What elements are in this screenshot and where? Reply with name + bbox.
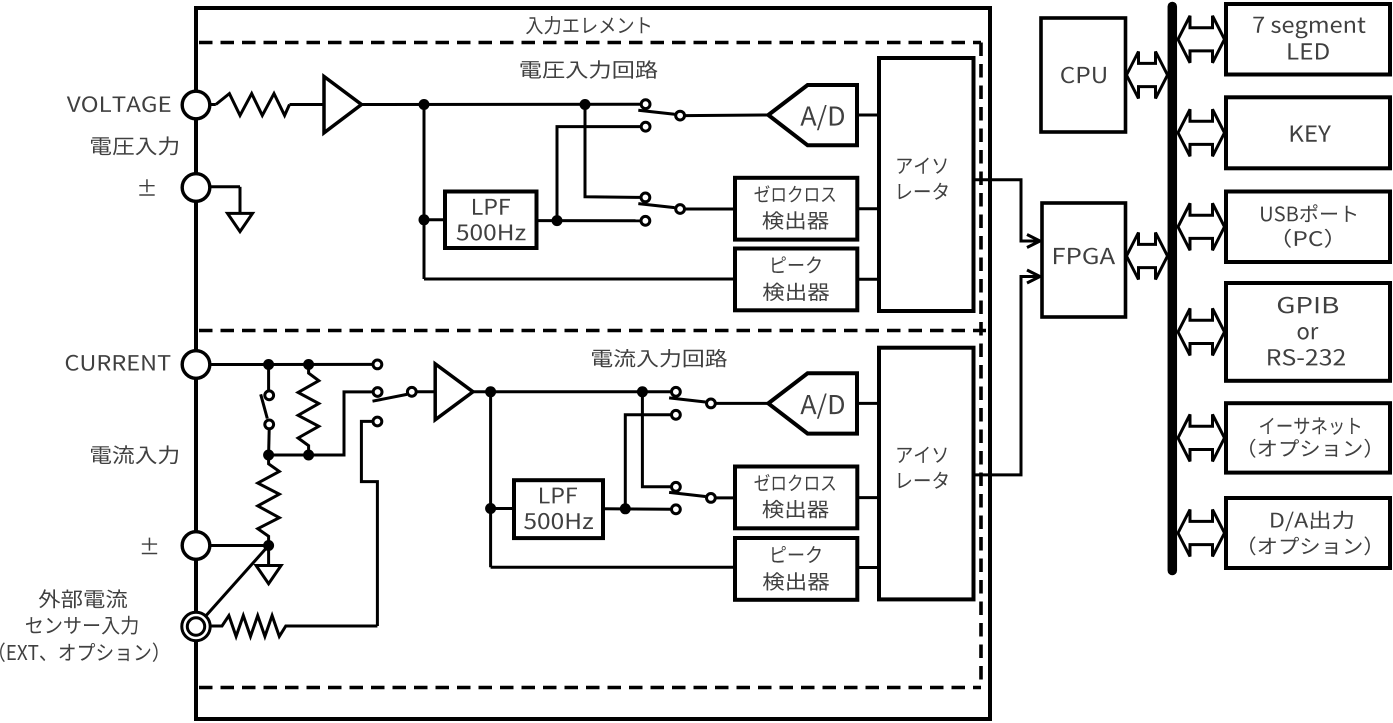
peripheral box: KEY (1226, 97, 1390, 168)
op-amp U2 (current amplifier) (435, 364, 473, 420)
wire: R1 to voltage amplifier (290, 103, 325, 106)
label: 電流入力回路 (current input circuit) (592, 349, 727, 367)
wire: U1 output to peak detector (voltage) (424, 278, 735, 281)
label: アイソ (voltage) (897, 158, 946, 174)
dashed boundary: current input circuit bottom edge (199, 686, 981, 690)
isolator (voltage) アイソレータ (879, 58, 974, 311)
node: voltage LPF output junction (552, 215, 563, 226)
bus: system bus bar (1168, 7, 1178, 571)
switch S3 (shunt range select) (261, 391, 274, 429)
wire: direct path down to switch S6 throw 1 (642, 392, 671, 487)
wire: zero-cross to isolator (voltage) (857, 207, 879, 210)
label: 検出器 (voltage zero-cross) (763, 211, 829, 229)
wire: U2 output to switch S5 throw 1 (473, 390, 672, 393)
bus arrow: bus to Ethernet (1178, 414, 1225, 461)
value label: 500Hz (current) (524, 513, 593, 529)
label: RS-232 (1268, 349, 1345, 366)
wire: S5 common to A/D (current) (715, 402, 768, 405)
wire: EXT sensor path to selector throw 3 (361, 421, 377, 626)
wire: S2 common to zero-cross detector (voltage) (684, 208, 735, 211)
label: CURRENT (66, 355, 171, 371)
node: shunt switch bottom junction (263, 450, 274, 461)
A/D converter (voltage) (768, 85, 857, 145)
wire: ground drop (voltage) (239, 187, 242, 214)
node: voltage direct-path junction (580, 99, 591, 110)
value label: 500Hz (voltage) (457, 224, 526, 240)
peripheral box: 7 segment LED (1226, 4, 1390, 75)
switch blade: EXT sensor select (206, 546, 268, 616)
bus arrow: bus to GPIB/RS-232 (1178, 308, 1225, 355)
label: KEY (1291, 126, 1331, 142)
zero-cross detector box (voltage) (735, 178, 857, 240)
terminal: CURRENT + input (182, 351, 210, 379)
label: ピーク (voltage) (772, 256, 821, 273)
peak detector box (current) (735, 538, 857, 600)
wire: S4 common to current amplifier (416, 390, 435, 393)
CPU block (1041, 18, 1126, 132)
dashed boundary: voltage input circuit top edge (199, 41, 981, 45)
node: shunt resistor bottom junction (303, 450, 314, 461)
wire: current LPF output (603, 507, 672, 511)
op-amp U1 (voltage amplifier) (324, 77, 362, 133)
bus arrow: bus to D/A output (1178, 510, 1225, 557)
value label: LPF (voltage) (473, 199, 510, 215)
label: 電圧入力 (voltage input) (91, 136, 178, 155)
terminal: VOLTAGE + input (182, 91, 210, 119)
wire: U2 output to peak detector (current) (491, 566, 735, 569)
label: A/D (current) (800, 394, 844, 419)
label: レータ (voltage) (899, 183, 948, 200)
resistor R4 (EXT sensor input series) (211, 616, 378, 637)
label: FPGA (1054, 248, 1115, 265)
resistor R3 (current shunt) (258, 455, 280, 546)
wire: VOLTAGE terminal to resistor R1 (210, 103, 216, 106)
wire: peak detector to isolator (voltage) (857, 278, 879, 281)
switch S4 (current source selector) (373, 360, 417, 426)
bus arrow: CPU to bus (1127, 52, 1168, 99)
label: or (1298, 327, 1319, 340)
wire: tap to current LPF input (491, 507, 514, 510)
label: 電流入力 (current input) (91, 445, 178, 464)
label: VOLTAGE (67, 96, 171, 112)
label: レータ (current) (899, 472, 948, 489)
wire: shunt bottom connector to selector throw 2 (269, 392, 374, 455)
low-pass filter LPF 500Hz (voltage) (445, 192, 537, 249)
switch S1 (voltage A/D input select) (638, 100, 684, 131)
node: shunt switch top junction (263, 359, 274, 370)
wire: peak detector to isolator (current) (857, 566, 879, 569)
wire: U1 output to switch S1 throw 1 (362, 103, 642, 106)
wire: voltage ± terminal to ground (210, 185, 240, 188)
label: USBポート (1261, 204, 1356, 222)
FPGA block (1042, 203, 1126, 317)
label: イーサネット (1260, 417, 1360, 435)
label: 電圧入力回路 (voltage input circuit) (521, 60, 658, 78)
wire: junction down to shunt range switch (267, 365, 270, 391)
label: 外部電流 (external current) (39, 589, 127, 608)
label: LED (1288, 43, 1328, 59)
label: GPIB (1278, 297, 1338, 314)
label: ゼロクロス (voltage) (755, 185, 836, 202)
node: U1 output junction (419, 99, 430, 110)
label: 検出器 (current zero-cross) (763, 500, 829, 518)
wire: S1 common to A/D (voltage) (684, 114, 768, 118)
ground (voltage input) (228, 213, 253, 231)
wire: S6 common to zero-cross detector (current) (715, 496, 735, 499)
label: （オプション） d/a (1250, 536, 1370, 555)
node: shunt resistor top junction (303, 359, 314, 370)
wire: direct path down to switch S2 throw 1 (585, 105, 641, 198)
label: A/D (voltage) (800, 105, 844, 130)
enclosure: input element block (入力エレメント) (196, 8, 990, 719)
resistor R2 (current shunt range) (298, 365, 319, 456)
label: ゼロクロス (current) (755, 474, 836, 491)
wire: tap to voltage LPF input (424, 218, 445, 221)
zero-cross detector box (current) (735, 467, 857, 529)
terminal: current ± (low) (182, 532, 210, 560)
label: 7 segment (1253, 17, 1365, 39)
dashed boundary: voltage/current section divider (199, 329, 986, 333)
low-pass filter LPF 500Hz (current) (514, 480, 603, 538)
node: current LPF input tap (485, 503, 496, 514)
label: D/A出力 (1271, 511, 1353, 531)
resistor R1 (voltage input series) (216, 94, 290, 116)
peripheral box: Ethernet (option) (1226, 403, 1390, 472)
label: （オプション） ethernet (1250, 439, 1370, 458)
node: current direct-path junction (637, 386, 648, 397)
terminal: external current sensor input (EXT) (182, 612, 210, 640)
A/D converter (current) (768, 373, 857, 433)
isolator (current) アイソレータ (879, 348, 974, 600)
label: CPU (1061, 67, 1106, 84)
label: ± (voltage) (139, 179, 154, 196)
peripheral box: USB port (PC) (1226, 192, 1390, 263)
switch S6 (current zero-cross input select) (669, 482, 715, 513)
wire: CURRENT terminal to selector (210, 363, 373, 366)
label: （EXT、オプション） (0, 642, 158, 662)
node: current LPF output junction (620, 503, 631, 514)
label: ピーク (current) (772, 546, 821, 563)
label: 検出器 (voltage peak) (763, 283, 829, 301)
bus arrow: bus to 7 segment LED (1178, 16, 1225, 63)
label: アイソ (current) (897, 447, 946, 463)
node: voltage LPF input tap (419, 214, 430, 225)
peripheral box: D/A output (option) (1226, 498, 1390, 568)
bus arrow: bus to USB port (1178, 203, 1225, 250)
node: U2 output junction (485, 386, 496, 397)
dashed boundary: right edge of input circuits (979, 43, 983, 688)
wire: A/D to isolator (current) (857, 402, 879, 405)
wire: zero-cross to isolator (current) (857, 496, 879, 499)
label: 検出器 (current peak) (763, 572, 829, 590)
wire: A/D to isolator (voltage) (857, 114, 879, 117)
wire: LPF output up to switch S1 throw 2 (557, 127, 641, 221)
bus arrow: FPGA to bus (1127, 233, 1168, 280)
wire: shunt range switch to bottom junction (267, 429, 271, 455)
terminal: voltage ± (low) (182, 174, 210, 202)
wire: ground drop (current) (267, 546, 270, 566)
wire: voltage isolator to FPGA with arrowhead (974, 180, 1038, 241)
wire: U2 output down to LPF input and peak detector (current) (489, 392, 492, 568)
wire: voltage LPF output (537, 219, 642, 222)
switch S5 (current A/D input select) (669, 387, 715, 419)
ground (current input) (256, 566, 281, 584)
label: 入力エレメント (input element) (526, 16, 650, 34)
bus arrow: bus to KEY (1178, 109, 1225, 156)
label: センサー入力 (sensor input) (26, 616, 138, 635)
peak detector box (voltage) (735, 249, 857, 311)
wire: current isolator to FPGA with arrowhead (974, 277, 1038, 475)
peripheral box: GPIB or RS-232 (1226, 283, 1390, 381)
wire: U1 output down to LPF input and peak detector (423, 105, 426, 280)
node: current low junction (263, 540, 274, 551)
label: ± (current) (142, 538, 157, 555)
wire: LPF output up to switch S5 throw 2 (625, 415, 672, 509)
switch S2 (voltage zero-cross input select) (638, 193, 684, 225)
value label: LPF (current) (540, 488, 577, 504)
label: （PC） (1285, 229, 1331, 248)
wire: current ± terminal to shunt node (210, 544, 269, 547)
